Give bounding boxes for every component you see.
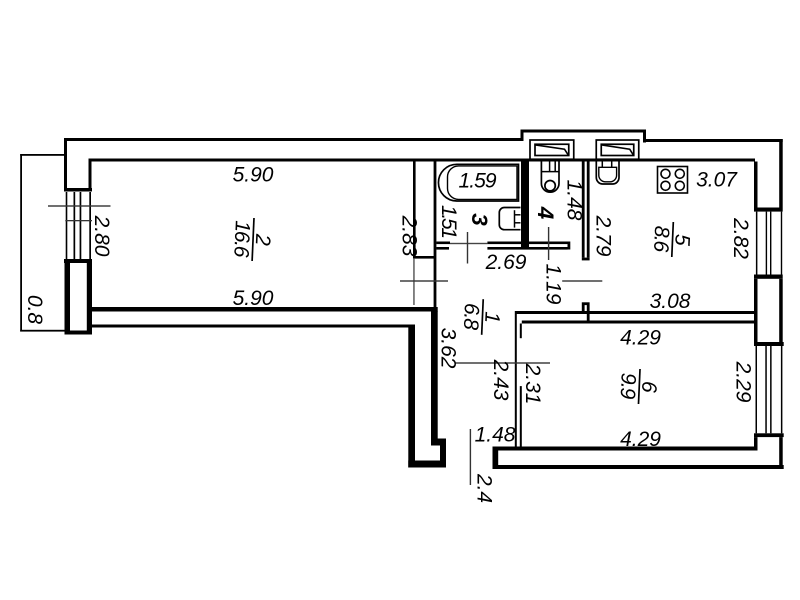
fixture: kitchen sink faucet ticks bbox=[602, 162, 611, 168]
dimension tick kitchen door bbox=[562, 280, 602, 281]
dimension 1.51 vertical bbox=[437, 205, 460, 239]
wire: left window top cap bbox=[64, 188, 92, 192]
wire: hall/room6 party wall left line bbox=[515, 311, 517, 447]
wire: hall/room6 party wall right line lower bbox=[520, 386, 522, 446]
wire: kitchen door top cap bbox=[582, 258, 590, 261]
dimension 0.8 vertical bbox=[23, 295, 46, 325]
wire: right wall inner line segment 2 bbox=[754, 279, 758, 342]
wire: kitchen west wall left line lower bbox=[582, 305, 585, 314]
svg-text:5: 5 bbox=[670, 234, 694, 247]
vent shaft V1 box bbox=[530, 140, 574, 159]
svg-text:2.31: 2.31 bbox=[521, 363, 544, 405]
window W2 kitchen window glazing lines bbox=[756, 212, 782, 275]
wire: hallway west wall inner line bbox=[431, 311, 438, 446]
svg-text:2.4: 2.4 bbox=[473, 473, 496, 503]
dimension 2.83 vertical bbox=[398, 215, 421, 257]
vent shaft V2 box bbox=[596, 140, 639, 159]
wire: room6 window bottom cap bbox=[754, 433, 784, 437]
wire: room 2 bottom wall bottom line bbox=[89, 325, 416, 328]
wire: bottom wall bottom line bbox=[493, 465, 784, 469]
fixture: washbasin room4 outer bbox=[541, 162, 559, 193]
wire: right wall outer line segment 1 bbox=[779, 139, 783, 208]
fixture: washbasin rim line bbox=[541, 171, 559, 173]
room number 4 bbox=[533, 206, 558, 220]
leader line room 4 bbox=[548, 227, 549, 260]
svg-text:4.29: 4.29 bbox=[620, 428, 661, 451]
dimension 1.48 room4 vertical bbox=[563, 180, 586, 221]
wire: room2 door cap bbox=[413, 256, 436, 259]
wire: vent bump right step bbox=[643, 130, 646, 143]
wire: kitchen west wall right line upper bbox=[587, 162, 590, 258]
svg-text:2.83: 2.83 bbox=[398, 215, 421, 257]
wire: vent bump left step bbox=[521, 130, 524, 142]
fixture: bathtub inner contour bbox=[448, 166, 518, 200]
wire: right wall inner line segment 1 bbox=[754, 162, 758, 208]
wire: left window bottom cap bbox=[64, 259, 92, 263]
svg-text:1.48: 1.48 bbox=[475, 424, 516, 447]
wire: left wall inner line below window bbox=[87, 262, 92, 335]
wire: bathroom bottom wall bottom line east segment bbox=[487, 247, 567, 250]
leader line room 3 bbox=[467, 232, 468, 264]
window W1 left wall glazing lines bbox=[66, 192, 91, 259]
fixture: toilet bowl bbox=[499, 208, 520, 230]
svg-text:3.07: 3.07 bbox=[696, 169, 738, 192]
svg-text:1.51: 1.51 bbox=[437, 205, 460, 239]
dimension 3.62 vertical bbox=[437, 328, 460, 369]
room label 1/6.8 bbox=[459, 298, 505, 335]
fixture: kitchen sink outer bbox=[596, 162, 619, 185]
wire: right wall outer line segment 3 bbox=[779, 437, 783, 469]
wire: kitchen window top cap bbox=[754, 208, 783, 212]
dimension 2.43 vertical bbox=[489, 359, 512, 401]
svg-text:1.19: 1.19 bbox=[542, 264, 565, 305]
fixture: washbasin drain circle bbox=[545, 181, 555, 191]
svg-text:1: 1 bbox=[480, 311, 503, 324]
fixture: stove square bbox=[658, 167, 688, 194]
wire: kitchen door bottom cap bbox=[582, 302, 590, 305]
wire: hallway west wall outer line bbox=[408, 325, 415, 468]
wire: room2/hall wall right line bbox=[434, 159, 437, 313]
svg-text:3.08: 3.08 bbox=[650, 290, 691, 313]
dimension 2.31 vertical bbox=[521, 363, 544, 405]
wire: bathroom bottom wall top line east segment bbox=[487, 242, 567, 245]
svg-text:5.90: 5.90 bbox=[233, 287, 274, 310]
wire: kitchen window bottom cap bbox=[754, 275, 783, 279]
dimension 2.4 entrance vertical bbox=[473, 473, 496, 503]
window W3 room6 window glazing lines bbox=[756, 346, 783, 433]
svg-text:2.29: 2.29 bbox=[732, 361, 755, 403]
dimension 2.79 vertical bbox=[592, 215, 615, 257]
wire: entrance door left jamb bbox=[440, 439, 446, 468]
svg-text:3: 3 bbox=[467, 213, 492, 226]
room number 3 bbox=[467, 213, 492, 226]
svg-text:6: 6 bbox=[637, 381, 661, 394]
wire: kitchen bottom wall bottom line bbox=[522, 321, 755, 324]
wire: bathroom door threshold thin line bbox=[450, 243, 487, 244]
wire: kitchen west wall right line lower bbox=[587, 305, 590, 324]
svg-text:16.6: 16.6 bbox=[229, 220, 254, 258]
svg-text:6.8: 6.8 bbox=[459, 303, 483, 331]
dimension tick at left window bbox=[48, 205, 111, 206]
svg-text:3.62: 3.62 bbox=[437, 328, 460, 369]
svg-text:1.48: 1.48 bbox=[563, 180, 586, 221]
wire: bathroom bottom wall bottom line west segment bbox=[436, 247, 449, 250]
wire: entrance door left stub bbox=[431, 439, 446, 446]
fixture: toilet tank lines bbox=[515, 210, 521, 227]
svg-text:2.82: 2.82 bbox=[729, 217, 752, 259]
wire: left wall outer line below window bbox=[65, 259, 71, 335]
dimension 1.19 vertical bbox=[542, 264, 565, 305]
dimension tick party wall bbox=[455, 362, 550, 363]
fixture: washbasin faucet ticks bbox=[550, 162, 556, 172]
wire: bottom wall top line bbox=[497, 447, 758, 451]
fixture: stove burners bbox=[661, 169, 684, 190]
wire: left wall outer line above window bbox=[64, 138, 67, 190]
dimension frame 0.8 bottom line bbox=[20, 330, 65, 332]
room label 6/9.9 bbox=[615, 368, 660, 405]
wire: right wall inner line segment 3 bbox=[754, 437, 758, 446]
wall partition between rooms 3 and 4 bbox=[521, 162, 529, 250]
svg-text:2: 2 bbox=[251, 233, 275, 247]
dimension frame 0.8 top line bbox=[20, 154, 64, 156]
svg-text:9.9: 9.9 bbox=[616, 372, 640, 400]
svg-text:2.69: 2.69 bbox=[485, 251, 527, 274]
wire: kitchen west wall left line upper bbox=[582, 162, 585, 258]
wire: entrance door right jamb bbox=[493, 447, 499, 470]
fixture: kitchen sink inner bbox=[599, 167, 617, 182]
wire: bathroom bottom wall top line west segment bbox=[436, 242, 450, 245]
wire: vent bump top line bbox=[521, 130, 647, 133]
svg-text:4: 4 bbox=[533, 206, 558, 220]
svg-text:2.80: 2.80 bbox=[90, 215, 113, 257]
room label 5/8.6 bbox=[649, 221, 694, 258]
wire: top exterior wall outer line (right part) bbox=[646, 139, 783, 142]
dimension 2.29 vertical bbox=[732, 361, 755, 403]
wire: room6 window top cap bbox=[754, 342, 784, 346]
svg-text:2.43: 2.43 bbox=[489, 359, 512, 401]
wire: room2/hall wall left line bbox=[413, 159, 416, 259]
wire: hall/room6 party wall right line upper bbox=[520, 324, 522, 339]
wire: hallway bottom outer wall segment bbox=[408, 461, 446, 468]
wire: left wall inner line above window bbox=[89, 159, 92, 191]
wire: right wall outer line segment 2 bbox=[779, 279, 783, 342]
fixture: bathtub outer contour bbox=[438, 164, 518, 201]
room label 2/16.6 bbox=[229, 217, 275, 262]
wire: top exterior wall outer line (left part) bbox=[64, 138, 521, 141]
dimension 2.80 vertical bbox=[90, 215, 113, 257]
dimension 2.82 vertical bbox=[729, 217, 752, 259]
svg-text:1.59: 1.59 bbox=[459, 170, 497, 193]
svg-text:5.90: 5.90 bbox=[233, 164, 274, 187]
dimension tick room2 east wall bbox=[400, 280, 448, 281]
wire: top exterior wall inner line bbox=[89, 159, 756, 162]
svg-text:2.79: 2.79 bbox=[592, 215, 615, 257]
dimension line across left window bbox=[65, 220, 92, 221]
dimension line entrance door vertical bbox=[470, 429, 471, 485]
svg-text:4.29: 4.29 bbox=[620, 327, 661, 350]
dimension frame 0.8 vertical line bbox=[20, 154, 22, 332]
wire: room 2 bottom wall top line bbox=[89, 307, 438, 312]
wire: bathroom wall east cap bbox=[568, 242, 571, 250]
wire: kitchen bottom wall top line bbox=[516, 311, 754, 314]
wire: room2 door threshold thin line bbox=[413, 258, 414, 305]
svg-text:0.8: 0.8 bbox=[23, 295, 46, 325]
svg-text:8.6: 8.6 bbox=[649, 225, 673, 253]
wire: left wall bottom cap bbox=[65, 331, 93, 335]
